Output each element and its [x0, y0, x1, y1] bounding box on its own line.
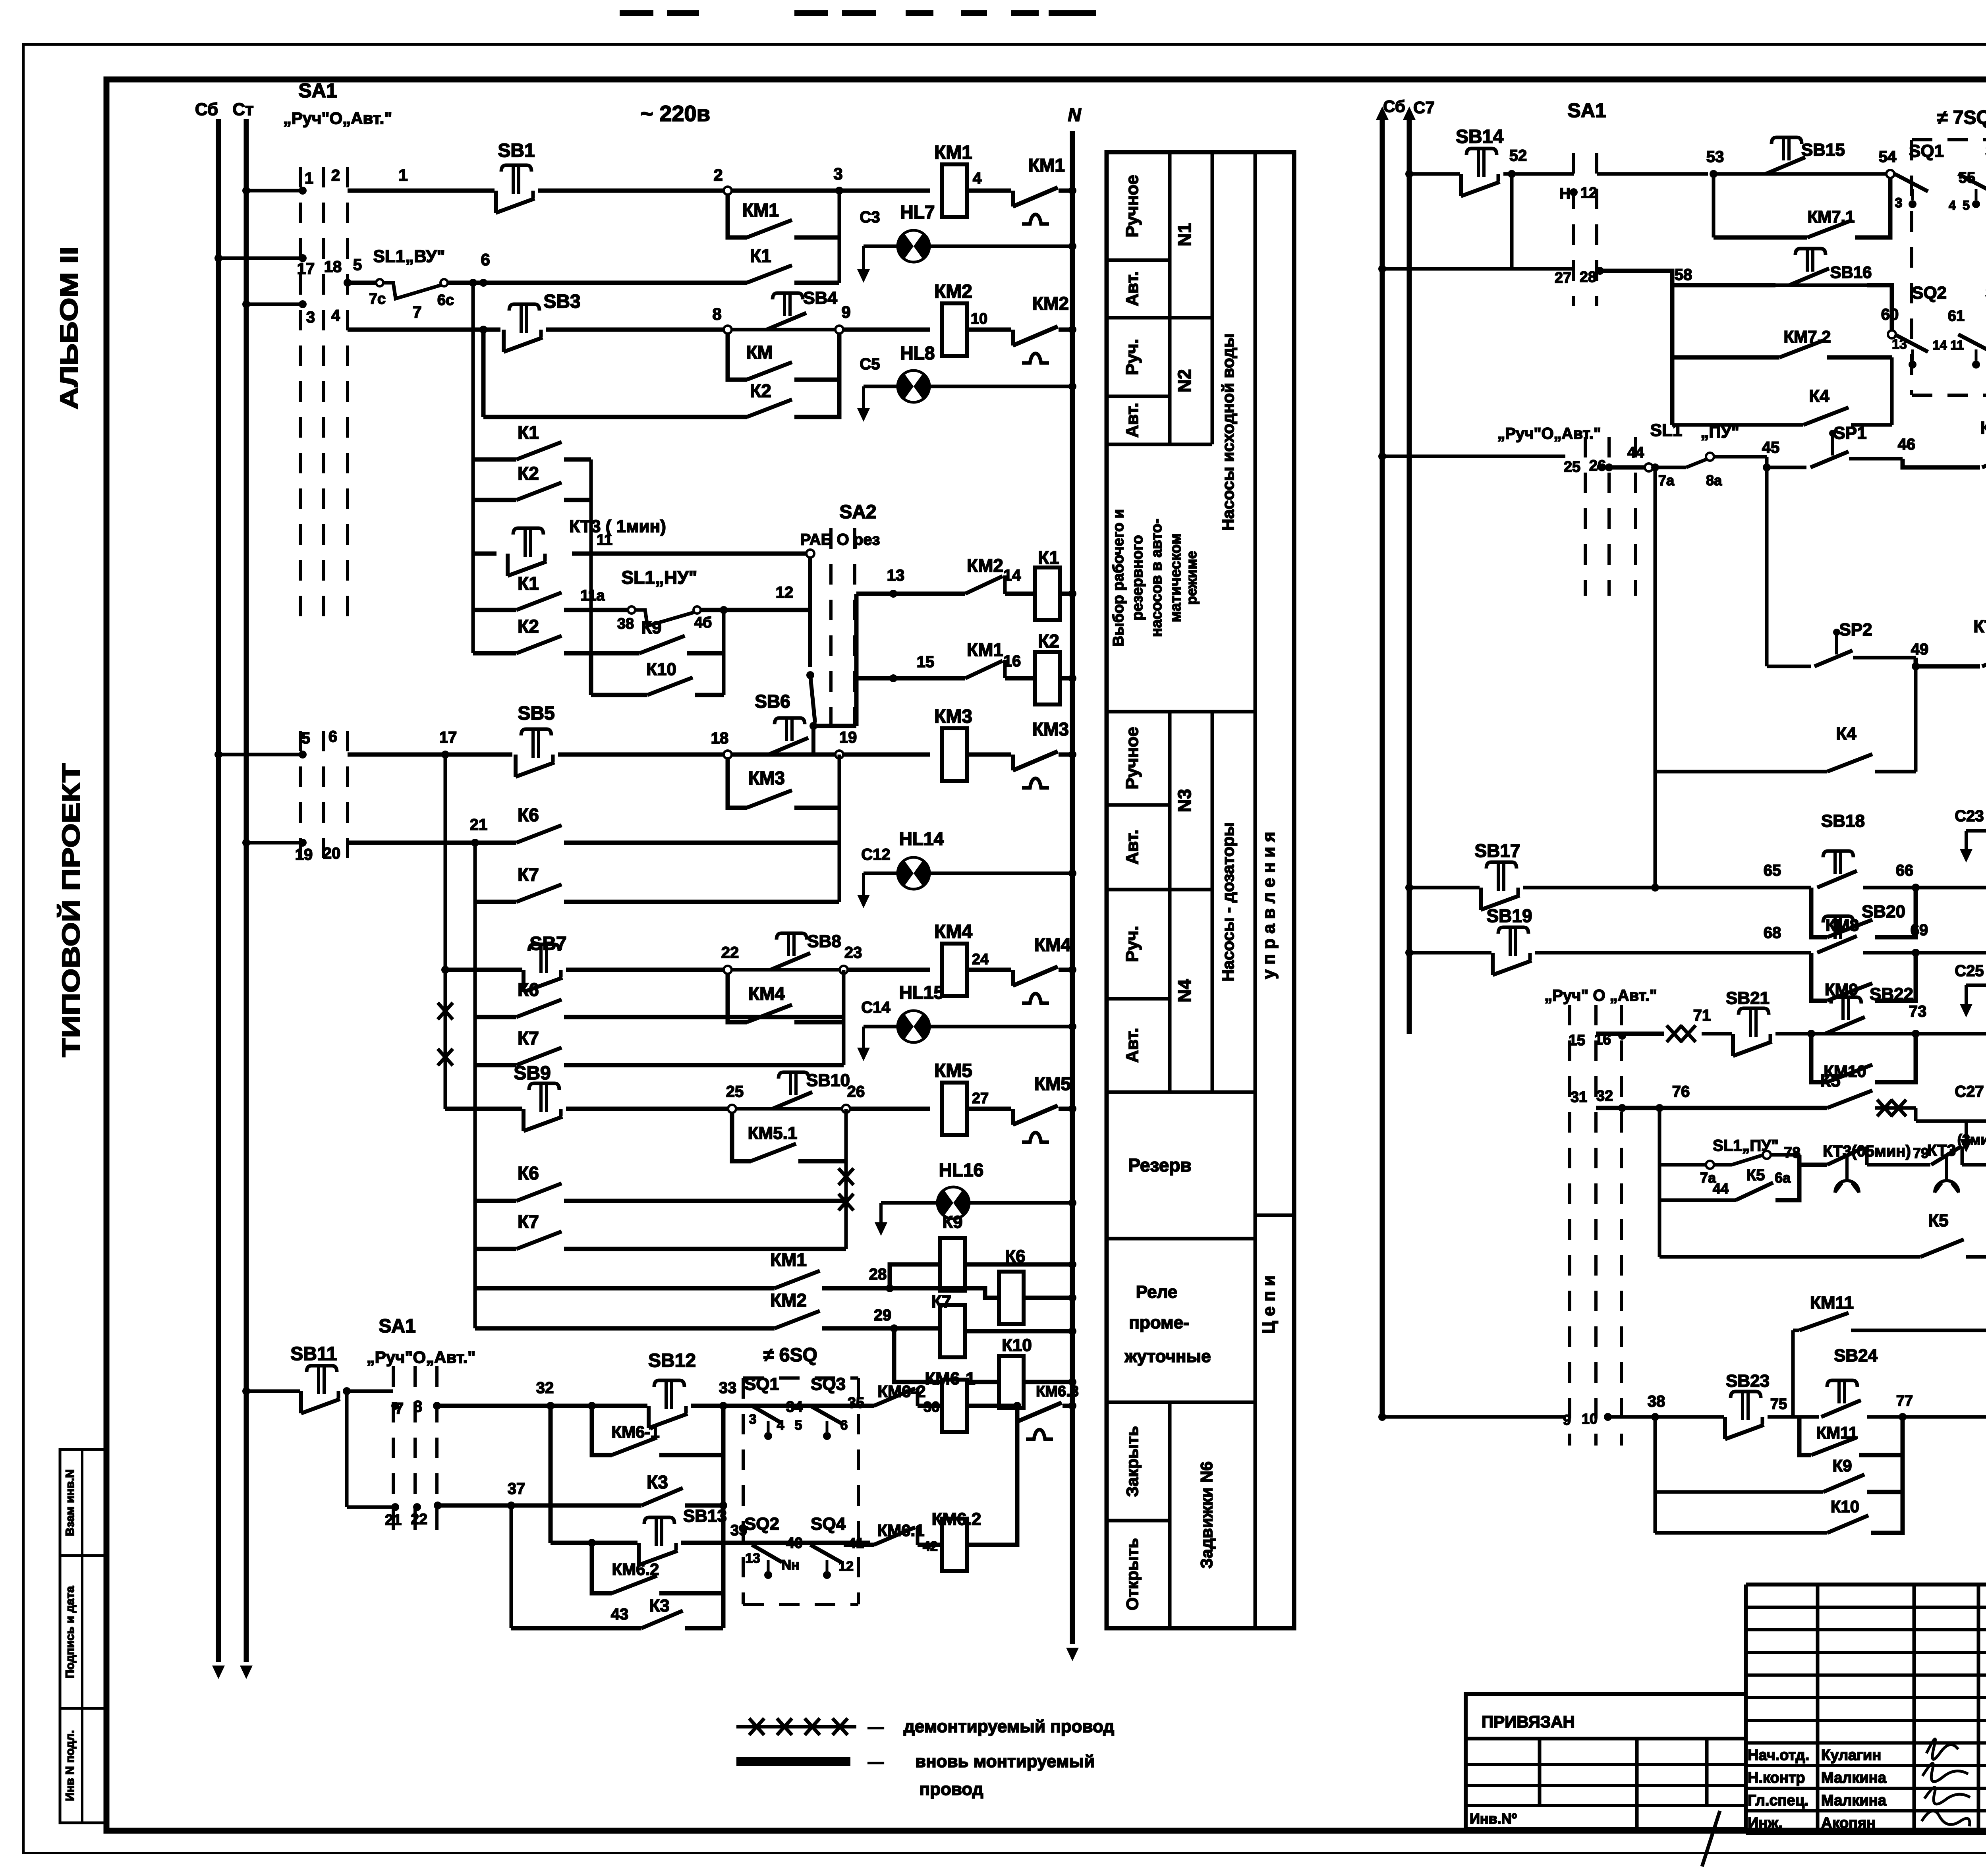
svg-text:8а: 8а	[1706, 472, 1722, 488]
svg-text:Взам инв.N: Взам инв.N	[64, 1469, 77, 1536]
svg-text:8: 8	[413, 1398, 422, 1415]
svg-text:SQ3: SQ3	[811, 1374, 846, 1394]
travel switch SQ3 (7SQ)	[1958, 141, 1986, 212]
svg-text:КМ6.3: КМ6.3	[1036, 1383, 1079, 1400]
svg-text:58: 58	[1675, 266, 1692, 284]
svg-text:15: 15	[1569, 1032, 1585, 1049]
bus N (left)	[1066, 104, 1081, 1661]
contact K5 (2)	[1660, 1211, 1986, 1257]
wire to N valve	[1063, 1402, 1076, 1410]
SA1 dashed column 1	[299, 167, 302, 620]
node 26	[842, 1083, 865, 1113]
label ~220в	[640, 101, 710, 126]
contact KM5 thermal	[967, 1073, 1071, 1142]
svg-text:SQ4: SQ4	[811, 1514, 846, 1534]
contact K9	[591, 610, 724, 695]
coil KM3	[934, 706, 972, 781]
push button SB20	[1817, 902, 1916, 953]
contact K7 (2)	[475, 1028, 844, 1065]
svg-text:77: 77	[1896, 1393, 1913, 1409]
contact KM4 (seal-in)	[728, 974, 844, 1022]
wire 25	[566, 1083, 744, 1109]
contact K6 (1)	[348, 755, 839, 902]
contact K6 (3)	[475, 1163, 846, 1201]
svg-text:5: 5	[795, 1418, 802, 1433]
svg-text:SA1: SA1	[379, 1316, 415, 1337]
svg-text:SB18: SB18	[1821, 811, 1865, 831]
bus Ст (left)	[232, 100, 253, 1679]
svg-text:Сб: Сб	[1383, 97, 1405, 116]
timer contact KT3 1min	[473, 517, 810, 576]
svg-text:К5: К5	[1746, 1166, 1765, 1184]
svg-text:4: 4	[973, 170, 982, 187]
contact K1	[747, 245, 792, 283]
svg-text:18: 18	[711, 730, 729, 747]
wire C12 stub	[857, 846, 891, 908]
contact KM9 (seal-in)	[1811, 953, 1916, 1001]
contact KM2 (interlock)	[887, 555, 1021, 594]
svg-text:SB21: SB21	[1726, 988, 1770, 1008]
wire 1	[348, 166, 495, 191]
svg-text:SB11: SB11	[290, 1343, 337, 1365]
svg-text:К6: К6	[518, 1163, 539, 1183]
svg-text:3: 3	[833, 164, 842, 183]
wire C5 stub	[857, 355, 880, 422]
svg-text:2: 2	[713, 166, 723, 184]
push button SB23	[1725, 1371, 1770, 1439]
svg-text:КМ11: КМ11	[1810, 1293, 1854, 1312]
svg-text:КМ2: КМ2	[967, 555, 1003, 576]
push button SB17	[1405, 840, 1520, 910]
wire to N rung3	[1059, 326, 1076, 334]
svg-text:К6: К6	[518, 805, 539, 825]
SA1 right dashed col 1	[1572, 153, 1575, 306]
wire 65	[1523, 862, 1811, 892]
svg-text:КМ11: КМ11	[1816, 1423, 1858, 1442]
svg-text:К2: К2	[518, 463, 539, 484]
demount X wire	[438, 970, 453, 1109]
svg-text:КМ1: КМ1	[770, 1249, 807, 1270]
wire 58	[1600, 266, 1775, 285]
wire 17	[348, 729, 512, 759]
svg-text:К6: К6	[518, 979, 539, 1000]
svg-text:54: 54	[1879, 148, 1897, 166]
wire SP2 feed	[1765, 467, 1769, 666]
legend new wire	[736, 1752, 1095, 1799]
push button SB13	[551, 1506, 727, 1565]
svg-text:SB8: SB8	[807, 932, 841, 951]
svg-text:38: 38	[617, 616, 634, 632]
legend demontage wire	[736, 1717, 1114, 1736]
SA1 contact 15-16	[1569, 1031, 1626, 1049]
wire to N rung7	[1059, 1105, 1076, 1113]
svg-text:Подпись и дата: Подпись и дата	[64, 1586, 77, 1678]
SA1 contact H-12	[1559, 185, 1597, 202]
svg-text:КМ: КМ	[746, 342, 773, 363]
contact KM6.3	[967, 1383, 1079, 1439]
svg-text:20: 20	[323, 845, 341, 862]
travel switch SQ2	[744, 1514, 803, 1579]
contact KM11 (seal-in)	[1799, 1417, 1903, 1455]
wire to N rung5	[1059, 751, 1076, 759]
contact KM1 thermal	[1013, 155, 1065, 224]
left table text Выбор	[1110, 509, 1200, 647]
svg-text:резервного: резервного	[1129, 535, 1146, 620]
svg-text:16: 16	[1003, 652, 1021, 670]
SA1 contact 21-22	[347, 1502, 442, 1529]
svg-text:3: 3	[749, 1412, 757, 1427]
left table texts col B	[1174, 223, 1216, 1569]
svg-text:9: 9	[841, 303, 850, 321]
svg-text:SB13: SB13	[683, 1506, 727, 1526]
limit switch SL1 ПУ (2)	[1660, 1108, 1801, 1257]
svg-text:КМ1: КМ1	[742, 200, 779, 220]
wire 73	[1909, 1003, 1927, 1038]
svg-text:Инв N подл.: Инв N подл.	[64, 1730, 77, 1801]
push button SB1	[496, 140, 535, 213]
svg-text:7а: 7а	[1658, 472, 1675, 488]
svg-text:2: 2	[331, 167, 340, 184]
svg-text:N1: N1	[1174, 223, 1195, 247]
svg-text:КМ6-1: КМ6-1	[611, 1422, 659, 1441]
svg-text:HL14: HL14	[899, 828, 944, 849]
coil KM8	[1916, 827, 1986, 914]
svg-text:Ручное: Ручное	[1122, 175, 1142, 237]
wire 52	[1503, 147, 1574, 269]
push button SB3	[504, 291, 581, 352]
svg-text:SB17: SB17	[1474, 840, 1520, 861]
contact K4 (valve)	[1672, 357, 1892, 425]
SA1 contact 31-32	[1571, 1088, 1626, 1112]
svg-text:SB3: SB3	[543, 291, 580, 312]
svg-text:HL7: HL7	[900, 202, 935, 222]
svg-text:N2: N2	[1174, 369, 1195, 393]
node 23	[840, 944, 862, 974]
svg-text:N: N	[1068, 104, 1081, 125]
wire C3 stub	[857, 208, 880, 283]
svg-text:Инв.Nº: Инв.Nº	[1470, 1810, 1517, 1827]
lamp HL7	[864, 202, 1076, 263]
coil KM4	[848, 921, 972, 996]
svg-text:КМ5.1: КМ5.1	[748, 1123, 798, 1143]
svg-text:11а: 11а	[580, 587, 605, 604]
svg-text:SB20: SB20	[1862, 902, 1905, 921]
svg-text:~ 220в: ~ 220в	[640, 101, 710, 126]
svg-text:25: 25	[726, 1083, 744, 1100]
node 2	[713, 166, 732, 195]
svg-text:—: —	[868, 1753, 884, 1771]
svg-text:14: 14	[1003, 567, 1021, 584]
svg-text:5: 5	[1963, 198, 1970, 212]
svg-text:„ПУ": „ПУ"	[1700, 423, 1739, 441]
travel switch SQ4	[810, 1514, 864, 1579]
scan noise dashes top	[620, 10, 1096, 16]
contact K2 (a)	[473, 463, 591, 500]
contact K9 (2)	[1655, 1417, 1903, 1533]
contact K2 (b)	[473, 616, 591, 653]
node 32	[547, 1402, 554, 1543]
contact KM6-1 (seal-in)	[588, 1402, 723, 1455]
svg-text:КМ4: КМ4	[1034, 934, 1071, 955]
svg-text:31: 31	[1571, 1089, 1587, 1106]
wire 39	[681, 1522, 870, 1543]
contact KM5.1 (seal-in)	[732, 1113, 846, 1161]
coil K2	[1005, 631, 1076, 704]
svg-text:18: 18	[324, 258, 342, 276]
travel switch SQ1	[744, 1374, 803, 1440]
block left vertical	[469, 279, 477, 653]
wire KM6.2 up	[967, 1408, 1017, 1545]
wire 32	[433, 1379, 647, 1410]
svg-text:Резерв: Резерв	[1128, 1155, 1191, 1175]
svg-text:К7: К7	[518, 864, 539, 885]
svg-text:34: 34	[786, 1399, 803, 1415]
svg-text:SQ1: SQ1	[744, 1374, 779, 1394]
svg-text:79: 79	[1913, 1145, 1929, 1161]
svg-text:Нач.отд.: Нач.отд.	[1748, 1747, 1809, 1764]
lamp HL8	[864, 343, 1076, 403]
bus Сб (left)	[195, 100, 225, 1679]
svg-text:Малкина: Малкина	[1821, 1770, 1887, 1786]
svg-text:27: 27	[1555, 270, 1571, 286]
wire C25 stub	[1955, 962, 1984, 1017]
node 18	[711, 730, 732, 759]
svg-text:61: 61	[1948, 308, 1965, 324]
coil KM5	[850, 1060, 972, 1135]
svg-text:HL8: HL8	[900, 343, 935, 363]
push button SB16	[1775, 249, 1872, 285]
SA1 contact 17-18	[214, 254, 362, 287]
slash mark	[1702, 1811, 1720, 1866]
svg-text:Руч.: Руч.	[1122, 926, 1142, 962]
coil KM6-1	[918, 1369, 976, 1432]
svg-text:у п р а в л е н и я: у п р а в л е н и я	[1259, 832, 1279, 979]
svg-text:53: 53	[1706, 148, 1724, 166]
svg-text:К1: К1	[1038, 547, 1059, 568]
push button SB24	[1821, 1346, 1986, 1417]
svg-text:75: 75	[1770, 1396, 1787, 1413]
svg-text:КМ6-1: КМ6-1	[925, 1369, 975, 1388]
svg-text:Ст: Ст	[232, 100, 253, 119]
svg-text:Насосы исходной воды: Насосы исходной воды	[1219, 333, 1237, 531]
push button SB22	[1825, 984, 1913, 1034]
wire 66	[1896, 862, 1920, 892]
stamp box Взам инв №	[60, 1449, 106, 1556]
wire 22	[566, 944, 739, 970]
coil K6	[890, 1247, 1076, 1324]
svg-text:10: 10	[971, 311, 987, 327]
svg-text:КТ3 ( 1мин): КТ3 ( 1мин)	[569, 517, 666, 536]
svg-text:SB12: SB12	[648, 1350, 696, 1371]
left table text Резерв	[1128, 1155, 1191, 1175]
svg-text:15: 15	[917, 653, 935, 671]
wire C23 stub	[1955, 807, 1984, 863]
svg-text:24: 24	[972, 951, 989, 968]
contact KM2 (aux)	[475, 1290, 898, 1332]
switch SA2	[800, 502, 880, 730]
wire 52-53	[1597, 172, 1708, 176]
svg-text:66: 66	[1896, 862, 1914, 879]
svg-text:Н: Н	[1559, 185, 1570, 202]
wire 37	[438, 1480, 641, 1509]
svg-text:1: 1	[305, 170, 313, 187]
svg-text:SB7: SB7	[529, 933, 566, 954]
svg-text:SL1: SL1	[1650, 421, 1683, 440]
svg-text:22: 22	[411, 1511, 427, 1528]
SA1 contact 27-28	[1378, 265, 1604, 286]
contact K3 (1)	[641, 1472, 727, 1509]
svg-text:SA2: SA2	[839, 502, 876, 523]
wire C27 stub	[1955, 1083, 1984, 1152]
SA1 dashed column 5	[413, 1366, 417, 1537]
SA1 dashed column 3	[346, 167, 349, 620]
svg-text:49: 49	[1911, 641, 1929, 658]
svg-text:КМ6-2: КМ6-2	[877, 1382, 925, 1401]
svg-text:22: 22	[721, 944, 739, 961]
svg-text:4б: 4б	[694, 614, 712, 631]
svg-text:40: 40	[786, 1535, 803, 1552]
svg-text:4: 4	[331, 307, 340, 324]
SA1 contact 7-8	[343, 1387, 422, 1507]
svg-text:14 11: 14 11	[1933, 338, 1964, 352]
svg-text:28: 28	[1580, 269, 1596, 286]
svg-text:К2: К2	[1038, 631, 1059, 651]
svg-text:37: 37	[508, 1480, 525, 1498]
contact KM6.2 (seal-in)	[588, 1539, 723, 1593]
svg-text:КМ4: КМ4	[748, 983, 785, 1004]
svg-text:Авт.: Авт.	[1122, 271, 1142, 306]
node 54	[1879, 148, 1897, 178]
svg-text:SB1: SB1	[498, 140, 535, 161]
svg-text:КМ6.2: КМ6.2	[932, 1509, 981, 1529]
svg-text:60: 60	[1881, 306, 1899, 323]
block vertical a	[589, 459, 593, 695]
contact KM1 (interlock)	[893, 639, 1021, 678]
svg-text:SL1„НУ": SL1„НУ"	[621, 567, 697, 588]
SA1 contact 5-6	[214, 728, 348, 858]
svg-text:КМ5: КМ5	[1034, 1073, 1071, 1094]
contact K7 (3)	[475, 1211, 846, 1249]
svg-text:SB6: SB6	[755, 691, 790, 712]
contact K10	[591, 653, 724, 695]
travel switch SQ4 (7SQ)	[1958, 283, 1986, 369]
contact K6 (2)	[475, 970, 844, 1065]
contact KM1 (aux)	[475, 1249, 894, 1292]
svg-text:С23: С23	[1955, 807, 1984, 825]
left table texts col C	[1219, 333, 1237, 981]
svg-text:Акопян: Акопян	[1821, 1815, 1876, 1832]
lamp HL16	[881, 1160, 1076, 1220]
SA1 right dashed col 2	[1595, 153, 1598, 306]
svg-text:КМ2: КМ2	[770, 1290, 807, 1310]
push button SB4	[732, 288, 839, 330]
node 25	[728, 1105, 736, 1113]
svg-text:насосов в авто-: насосов в авто-	[1148, 519, 1165, 637]
limit switch SL1 ВУ	[369, 247, 454, 309]
wire 33	[691, 1379, 870, 1628]
svg-text:К10: К10	[646, 660, 676, 679]
push button SB5	[516, 703, 555, 777]
svg-text:С12: С12	[861, 846, 890, 863]
svg-text:SB15: SB15	[1801, 140, 1845, 160]
push button SB21	[1726, 988, 1772, 1056]
svg-text:SL1„ВУ": SL1„ВУ"	[373, 247, 445, 266]
svg-text:К9: К9	[942, 1212, 962, 1232]
svg-text:N4: N4	[1174, 979, 1195, 1002]
svg-text:К7: К7	[518, 1028, 539, 1048]
svg-text:11: 11	[597, 532, 612, 548]
svg-text:52: 52	[1509, 147, 1527, 164]
coil KM1	[934, 142, 972, 217]
contact K4 (no)	[1651, 463, 1916, 888]
push button SB6 (in line)	[732, 691, 839, 755]
svg-text:С27: С27	[1955, 1083, 1984, 1100]
lamp HL18	[1966, 945, 1986, 1002]
lamp HL17	[1966, 803, 1986, 848]
timer contact KT2	[1973, 617, 1986, 694]
svg-text:SB14: SB14	[1456, 126, 1503, 147]
push button SB18	[1817, 811, 1916, 888]
svg-text:Сб: Сб	[195, 100, 218, 119]
contact K2 (to node9)	[479, 326, 839, 417]
svg-text:К3: К3	[649, 1596, 669, 1615]
svg-text:SB23: SB23	[1726, 1371, 1770, 1391]
svg-text:SL1„ПУ": SL1„ПУ"	[1713, 1137, 1779, 1154]
svg-text:SB10: SB10	[806, 1071, 850, 1090]
left table text Реле	[1124, 1282, 1211, 1366]
svg-text:35: 35	[848, 1395, 864, 1411]
bus С7 (right)	[1403, 98, 1435, 1034]
svg-text:Реле: Реле	[1136, 1282, 1178, 1302]
left table texts col A	[1122, 175, 1142, 1610]
svg-text:N3: N3	[1174, 789, 1195, 813]
svg-text:Авт.: Авт.	[1122, 830, 1142, 865]
push button SB7	[445, 933, 567, 992]
svg-text:К6: К6	[1005, 1247, 1025, 1266]
svg-text:6с: 6с	[437, 292, 454, 309]
wire 46	[1849, 436, 1980, 467]
svg-text:10: 10	[1582, 1411, 1598, 1427]
wire 9-coil	[843, 328, 930, 332]
svg-text:SB19: SB19	[1486, 905, 1532, 926]
svg-text:4: 4	[777, 1418, 784, 1433]
svg-text:„Руч"О„Авт.": „Руч"О„Авт."	[1497, 425, 1601, 442]
title signatures	[1922, 1739, 1970, 1826]
svg-text:РАБ О рез: РАБ О рез	[800, 531, 880, 548]
svg-text:КМ1: КМ1	[934, 142, 972, 163]
svg-text:33: 33	[719, 1379, 737, 1397]
wire 44	[1597, 444, 1653, 471]
svg-text:23: 23	[844, 944, 862, 961]
stamp box Подпись и дата	[60, 1556, 106, 1708]
svg-text:25: 25	[1564, 459, 1580, 475]
svg-text:32: 32	[1596, 1088, 1613, 1104]
svg-text:К1: К1	[518, 573, 539, 594]
svg-text:К1: К1	[750, 245, 771, 266]
svg-text:(2мин): (2мин)	[1957, 1131, 1986, 1148]
svg-text:Ц е п и: Ц е п и	[1259, 1276, 1279, 1334]
contact K10 (2)	[1655, 1492, 1903, 1533]
coil K9	[890, 1212, 1076, 1291]
svg-text:КМ3: КМ3	[748, 768, 785, 788]
svg-text:К10: К10	[1831, 1497, 1859, 1516]
svg-text:режиме: режиме	[1183, 551, 1200, 605]
limit switch SL1 ПУ	[1650, 421, 1739, 488]
coil KM6.2	[918, 1509, 981, 1571]
contact K1 11a	[473, 573, 628, 610]
svg-text:SP1: SP1	[1833, 423, 1866, 443]
contact K7 (1)	[475, 843, 839, 1328]
